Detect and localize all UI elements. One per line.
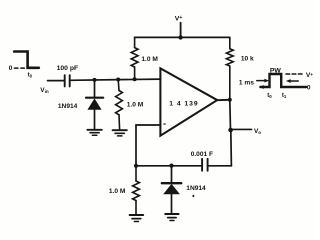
diode D1 triangle: [87, 98, 101, 109]
resistor R3 lower lead: [135, 201, 137, 215]
node Vo junction: [228, 128, 233, 133]
wire output down to Vo node: [229, 100, 232, 130]
node junction D2: [169, 164, 173, 168]
diode D1 lower lead: [94, 110, 96, 130]
PW right arrow (points left): [289, 80, 298, 82]
svg-text:100 pF: 100 pF: [57, 65, 79, 72]
V+ supply rail: [135, 36, 230, 38]
svg-text:0: 0: [9, 65, 13, 72]
svg-text:t0: t0: [267, 93, 272, 99]
node junction at D1: [93, 78, 97, 82]
node junction V+ on rail: [178, 35, 182, 39]
resistor R2 1.0M zigzag: [116, 91, 123, 115]
resistor R3 1.0M upper lead: [135, 166, 137, 181]
resistor R2 1.0M upper lead: [117, 80, 120, 91]
input step waveform: [14, 52, 39, 68]
resistor R4 lower lead to output: [229, 66, 231, 100]
svg-text:1 ms: 1 ms: [239, 79, 254, 86]
node junction output: [228, 98, 232, 102]
svg-text:0: 0: [307, 84, 311, 91]
svg-text:1N914: 1N914: [186, 185, 206, 192]
output pulse waveform: [260, 74, 306, 87]
wire C1 to comparator + input: [70, 79, 161, 80]
V+ dashed reference line: [286, 73, 303, 75]
diode D2 triangle: [163, 184, 180, 194]
op-amp U1 1/4 139 triangle: [160, 68, 217, 135]
resistor R1 1.0M upper lead from rail: [134, 37, 136, 47]
svg-text:10 k: 10 k: [241, 55, 254, 62]
node junction at R2: [116, 78, 120, 82]
diode D2 1N914 upper lead: [171, 166, 173, 184]
wire inverting input down: [135, 125, 137, 166]
input waveform 0 reference dashed line: [15, 67, 25, 69]
resistor R1 1.0M zigzag: [131, 48, 138, 67]
wire down-right corner to C2: [208, 165, 232, 167]
ground under D1: [87, 129, 101, 131]
diode D2 cathode bar: [162, 182, 182, 184]
svg-text:1N914: 1N914: [58, 103, 78, 110]
resistor R2 lower lead: [118, 115, 121, 130]
op-amp output wire: [217, 99, 230, 101]
svg-text:t0: t0: [28, 73, 33, 79]
resistor R4 10k upper lead: [229, 37, 231, 48]
diode D1 1N914 lead: [94, 80, 96, 98]
node Vin : input wire: [48, 80, 65, 82]
resistor R3 1.0M zigzag: [133, 181, 140, 201]
D2 label comma mark: [193, 195, 195, 197]
bottom node row wire: [136, 165, 202, 167]
resistor R4 10k zigzag: [226, 49, 233, 66]
node junction R3 corner: [134, 164, 138, 168]
V+ stub: [180, 23, 182, 38]
capacitor C2 0.001F plates: [202, 159, 208, 171]
wire inverting input left: [136, 124, 160, 126]
svg-text:1 4 139: 1 4 139: [169, 100, 198, 107]
wire Vo node down: [230, 130, 233, 166]
wire Vo tap: [233, 128, 252, 130]
svg-text:1.0 M: 1.0 M: [127, 101, 144, 108]
op-amp minus mark: [163, 123, 165, 124]
ground under R2: [113, 129, 127, 131]
svg-text:t1: t1: [282, 93, 287, 99]
1 ms arrow: [257, 80, 266, 82]
output waveform left arrowhead: [260, 85, 264, 89]
capacitor C1 100 pF plates: [65, 75, 70, 86]
svg-text:1.0 M: 1.0 M: [141, 56, 158, 63]
diode D2 lower lead: [171, 194, 173, 213]
ground under R3: [130, 214, 144, 216]
ground under D2: [165, 213, 178, 215]
diode D1 cathode bar: [86, 97, 103, 99]
resistor R1 lower lead: [134, 67, 136, 79]
svg-text:1.0 M: 1.0 M: [109, 188, 126, 195]
node junction at R1: [133, 77, 137, 81]
svg-text:PW: PW: [270, 67, 282, 74]
svg-text:0.001 F: 0.001 F: [191, 151, 213, 158]
